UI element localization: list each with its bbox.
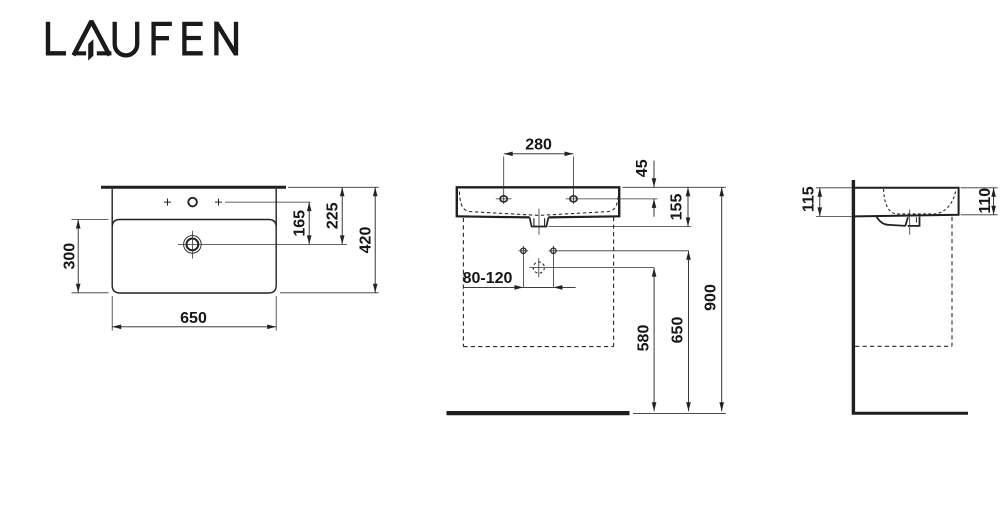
dim 300 top extension	[72, 219, 109, 221]
svg-text:650: 650	[180, 310, 207, 327]
dim 300 arrow up	[76, 220, 81, 229]
dim 115 arrow up	[818, 188, 823, 197]
side view: dashed installation box right	[951, 217, 953, 346]
dim 45 upper tail	[653, 161, 655, 188]
dim 420 line	[374, 187, 376, 292]
plan bottom extension line for 420	[280, 292, 379, 294]
dim 155 line	[687, 187, 689, 226]
front view: left mounting hole	[500, 196, 507, 202]
front view: top extension line for 45 and 900	[623, 186, 726, 188]
plan view: faucet centerline	[225, 201, 311, 203]
dim 300 bottom extension	[72, 292, 109, 294]
dim 45 lower tail	[653, 199, 655, 217]
dim 115 line	[819, 188, 821, 217]
side view: wall line	[852, 180, 855, 415]
dim 900 arrow up	[719, 187, 724, 196]
front view: right mounting hole	[570, 196, 577, 202]
svg-text:650: 650	[670, 317, 687, 344]
plan view: back edge bar	[101, 186, 286, 189]
plan view: drain horizontal centerline	[178, 243, 347, 245]
svg-text:45: 45	[634, 159, 651, 177]
dim 300 line	[77, 220, 79, 293]
plan view: drain inner circle	[187, 239, 199, 251]
dim 45 arrow up	[652, 199, 657, 208]
dim 300 arrow down	[76, 284, 81, 293]
dim 580 arrow up	[652, 268, 657, 277]
front view: bottom edge right	[548, 216, 620, 217]
svg-text:420: 420	[358, 227, 375, 254]
dim 110 top extension	[961, 187, 998, 189]
front view: drain centerline to 580 dim	[548, 267, 654, 269]
logo letter A outline	[74, 21, 110, 55]
plan view: drain outer circle	[184, 236, 202, 254]
dim 110 arrow down	[991, 206, 996, 215]
dim 165 line	[308, 202, 310, 244]
side view: underside pocket	[877, 216, 906, 226]
side view: pocket slant line	[905, 217, 908, 226]
logo letter A left foot	[74, 51, 87, 55]
front view: dashed installation box left	[462, 218, 464, 347]
logo letter E	[184, 24, 202, 53]
front view: body outline	[457, 187, 619, 216]
dim 280 arrow left	[504, 152, 513, 157]
front view: left supply connection	[519, 246, 529, 256]
front view: hidden bowl dashed line	[459, 192, 618, 216]
dim 580 line	[653, 268, 655, 412]
dim 115 arrow down	[818, 207, 823, 216]
plan view: faucet hole	[188, 198, 197, 207]
svg-text:580: 580	[635, 325, 652, 352]
dim 650 plan arrow left	[112, 325, 121, 330]
dim 420 arrow up	[373, 187, 378, 196]
dim 280 arrow right	[565, 152, 574, 157]
dim 80-120 line	[463, 286, 575, 288]
svg-text:110: 110	[977, 188, 994, 214]
dim 650 front arrow down	[686, 402, 691, 411]
logo letter A right foot	[97, 51, 112, 55]
svg-text:165: 165	[292, 210, 309, 237]
front view: trap outline	[530, 217, 549, 226]
dim 225 line	[341, 187, 343, 244]
dim 80-120 arrow pointing left	[553, 285, 562, 290]
front view: supply centerline to 650 dim	[558, 250, 689, 252]
dim 110 arrow up	[991, 188, 996, 197]
side view: dashed installation box bottom	[855, 345, 952, 347]
front view: trap inner walls	[534, 218, 545, 226]
plan view: bowl front edge	[112, 220, 276, 228]
front view: bottom edge left	[456, 216, 530, 217]
dim 650 front arrow up	[686, 251, 691, 260]
front view: vertical centerline through trap	[538, 209, 540, 235]
dim 650 plan left extension	[111, 296, 113, 331]
front view: dashed installation box right	[613, 217, 615, 346]
dim 80-120 left drop line	[522, 256, 524, 288]
front view: drain connection crosshair	[529, 258, 548, 277]
svg-text:155: 155	[669, 194, 686, 221]
side view: trap box	[908, 217, 920, 226]
dim 650 plan line	[112, 326, 276, 328]
dim 155 arrow up	[686, 187, 691, 196]
logo letter N diagonal	[214, 22, 238, 56]
svg-text:115: 115	[801, 186, 818, 212]
logo letter N	[216, 22, 236, 56]
plan view: body outline sides and bottom	[112, 189, 276, 293]
side view: hidden bowl dashed curve	[884, 189, 956, 214]
front view: right hole centerline extending to 45 dim	[566, 194, 658, 204]
dim 280 line	[504, 153, 574, 155]
dim 45 arrow down	[652, 178, 657, 187]
dim 900 line	[721, 187, 723, 411]
dim 650 plan right extension	[275, 296, 277, 331]
logo letter A inner slash	[88, 39, 93, 60]
dim 165 arrow down	[307, 235, 312, 244]
plan view: left tap cross	[164, 199, 171, 206]
dim 80-120 arrow pointing right	[514, 285, 523, 290]
front view: dashed installation box bottom	[463, 346, 613, 348]
front view: trap bottom extension to 155 dim	[548, 226, 691, 228]
dim 280 right extension	[573, 157, 575, 196]
dim 165 arrow up	[307, 202, 312, 211]
side view: trap inner tick	[915, 217, 917, 222]
svg-text:280: 280	[525, 137, 552, 154]
dim 225 arrow up	[340, 187, 345, 196]
dim 280 left extension	[503, 157, 505, 196]
dim 110 bottom extension	[961, 214, 998, 216]
logo letter F	[154, 24, 172, 56]
front view: drain connection dashed circle	[533, 262, 544, 273]
plan view: right tap cross	[215, 199, 222, 206]
dim 225 arrow down	[340, 235, 345, 244]
dim 900 arrow down	[719, 402, 724, 411]
svg-text:80-120: 80-120	[463, 270, 513, 287]
dim 650 front line	[688, 251, 690, 411]
side view: basin profile outline	[855, 188, 959, 217]
svg-text:300: 300	[62, 243, 79, 270]
logo letter L	[48, 22, 66, 54]
dim 115 top extension	[816, 187, 852, 189]
svg-text:225: 225	[325, 202, 342, 229]
logo letter U	[115, 22, 138, 56]
front view: right supply connection	[549, 246, 559, 256]
dim 80-120 right drop line	[552, 256, 554, 288]
dim 115 bottom extension	[816, 215, 852, 217]
dim 420 arrow down	[373, 284, 378, 293]
dim 110 line	[993, 188, 995, 215]
dim 580 arrow down	[652, 402, 657, 411]
front view: floor extension line	[633, 412, 726, 414]
front view: floor bar	[447, 411, 630, 415]
side view: vertical centerline	[909, 209, 911, 234]
svg-text:900: 900	[702, 284, 719, 311]
plan top extension line for 225 and 420	[288, 186, 379, 188]
side view: floor line	[852, 412, 968, 415]
plan view: drain vertical centerline	[191, 231, 193, 259]
front view: left hole centerline	[496, 194, 512, 204]
dim 650 plan arrow right	[267, 325, 276, 330]
dim 155 arrow down	[686, 218, 691, 227]
